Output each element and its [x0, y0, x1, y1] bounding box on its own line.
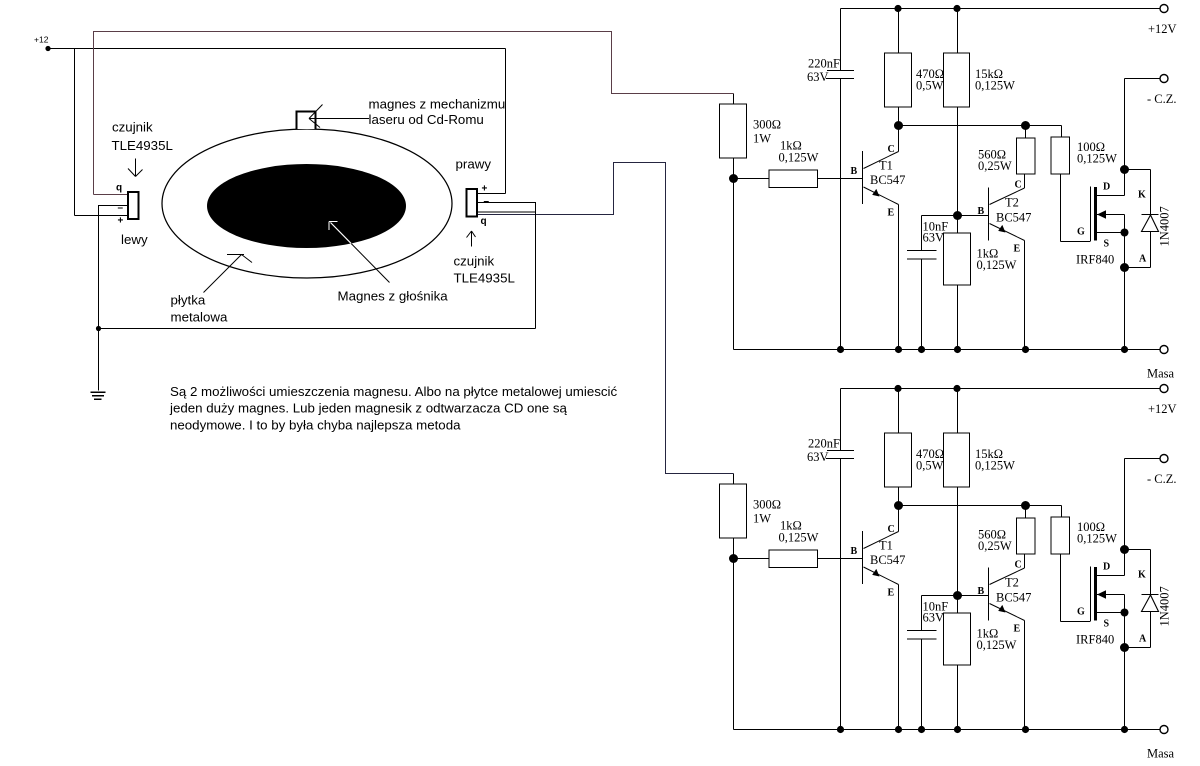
svg-text:czujnik: czujnik [112, 120, 153, 135]
svg-text:Są 2 możliwości umieszczenia m: Są 2 możliwości umieszczenia magnesu. Al… [170, 384, 617, 399]
svg-text:laseru od Cd-Romu: laseru od Cd-Romu [369, 112, 484, 127]
svg-text:lewy: lewy [121, 232, 148, 247]
svg-text:TLE4935L: TLE4935L [112, 138, 173, 153]
svg-text:czujnik: czujnik [454, 254, 495, 269]
svg-text:+12: +12 [34, 35, 49, 45]
svg-text:jeden duży magnes. Lub jeden m: jeden duży magnes. Lub jeden magnesik z … [169, 401, 568, 416]
svg-text:+: + [118, 216, 124, 227]
svg-text:magnes z mechanizmu: magnes z mechanizmu [369, 97, 506, 112]
svg-text:neodymowe. I to by była chyba: neodymowe. I to by była chyba najlepsza … [170, 417, 461, 432]
svg-text:q: q [481, 216, 487, 227]
svg-text:prawy: prawy [456, 157, 492, 172]
svg-text:metalowa: metalowa [171, 310, 229, 325]
svg-text:Magnes z głośnika: Magnes z głośnika [338, 289, 449, 304]
svg-text:+: + [482, 184, 488, 195]
svg-text:–: – [484, 196, 490, 207]
svg-text:q: q [116, 183, 122, 194]
svg-text:płytka: płytka [171, 293, 206, 308]
svg-text:–: – [118, 203, 124, 214]
svg-text:TLE4935L: TLE4935L [454, 271, 515, 286]
